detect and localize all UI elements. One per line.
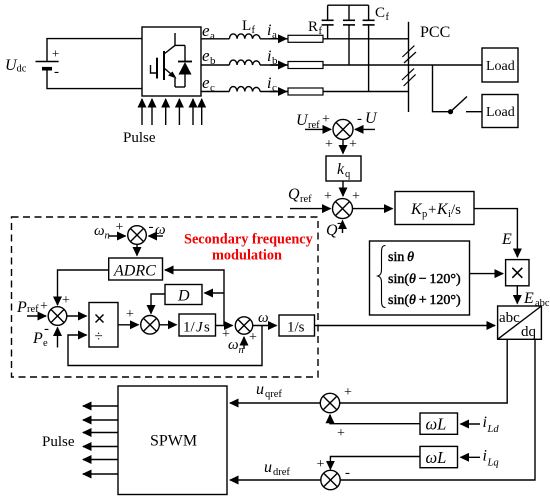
wire: ADRC output to P junction	[58, 270, 109, 305]
svg-text:+: +	[352, 189, 360, 204]
label Q minus	[326, 215, 342, 239]
multiplier block X	[506, 260, 529, 286]
omega-L block 2	[420, 446, 458, 467]
svg-text:b: b	[210, 55, 216, 67]
svg-text:c: c	[272, 82, 277, 94]
svg-text:ω: ω	[94, 223, 105, 239]
svg-text:f: f	[252, 25, 256, 36]
current arrow ia	[270, 38, 287, 40]
label Udc	[5, 57, 27, 75]
omega-L block 1	[420, 413, 458, 434]
resistor Rf phase c	[288, 88, 323, 95]
label ib	[267, 48, 278, 67]
label uqref	[256, 381, 282, 400]
svg-text:PCC: PCC	[420, 24, 450, 41]
svg-text:P: P	[32, 330, 43, 347]
svg-text:Ld: Ld	[487, 424, 500, 435]
wire: battery to inverter top rail	[47, 39, 142, 62]
wire: omega-L 2 to udref sum	[330, 457, 420, 469]
svg-text:ref: ref	[300, 194, 312, 205]
svg-text:k: k	[337, 161, 345, 178]
svg-text:R: R	[308, 19, 318, 35]
svg-text:u: u	[256, 381, 264, 398]
label ec	[202, 73, 215, 94]
capacitor Cf2	[343, 5, 355, 65]
svg-text:+: +	[116, 220, 124, 235]
wire: omega feedback into divider	[68, 326, 262, 366]
label iLq	[483, 447, 499, 468]
summing junction uqref	[320, 393, 339, 412]
svg-text:e: e	[202, 46, 210, 65]
svg-text:Pulse: Pulse	[42, 434, 75, 450]
wire: dw tap to D input	[205, 292, 225, 294]
svg-text:ref: ref	[27, 304, 39, 315]
D block	[165, 285, 202, 305]
wire: D output to sum	[151, 294, 165, 311]
pulse output arrows	[83, 406, 118, 474]
svg-text:i: i	[483, 447, 487, 464]
wire: junction to ADRC	[136, 244, 138, 255]
svg-text:U: U	[365, 110, 378, 127]
svg-text:+: +	[322, 112, 330, 127]
battery Udc	[36, 62, 59, 69]
capacitor Cf1	[322, 5, 334, 39]
label ia	[267, 22, 277, 41]
inverter box	[142, 27, 201, 96]
svg-text:qref: qref	[265, 389, 282, 400]
wire: U junction to kq	[342, 139, 344, 153]
diode D1 (antiparallel)	[175, 45, 192, 87]
inductor Lf phase a	[229, 34, 260, 39]
wire: capacitor top rail	[328, 4, 369, 6]
wire: drop to switch	[433, 65, 451, 112]
label eb	[202, 46, 216, 67]
svg-text:P: P	[16, 299, 27, 316]
PI block Kp+Ki/s	[395, 192, 474, 225]
switch S1	[448, 109, 453, 114]
svg-text:sin(θ + 120°): sin(θ + 120°)	[388, 293, 461, 308]
svg-text:e: e	[43, 338, 48, 349]
wire: uqref sum to SPWM	[230, 402, 320, 404]
sin reference block	[370, 241, 470, 315]
svg-text:+: +	[52, 46, 59, 61]
pulse arrows into inverter	[142, 99, 202, 125]
svg-text:c: c	[210, 82, 215, 94]
svg-text:dref: dref	[273, 467, 290, 478]
svg-text:e: e	[202, 21, 210, 40]
svg-text:-: -	[149, 219, 154, 235]
svg-text:÷: ÷	[95, 329, 103, 345]
wire: Pref input	[27, 315, 46, 317]
svg-text:a: a	[272, 29, 277, 41]
Load box 1	[482, 48, 518, 82]
svg-text:D: D	[177, 288, 190, 305]
label wn	[94, 223, 110, 242]
svg-text:i: i	[483, 414, 487, 431]
svg-text:+: +	[337, 426, 345, 441]
label minus w	[149, 219, 166, 238]
wire: Q feedback input	[342, 221, 344, 233]
bus slash marks	[402, 46, 416, 86]
wire: Pe input	[57, 328, 59, 348]
svg-text:f: f	[386, 12, 390, 23]
Load box 2	[482, 95, 518, 128]
svg-text:-: -	[345, 465, 350, 481]
wire: abc/dq q-output down to udref sum	[340, 339, 535, 480]
svg-text:f: f	[319, 26, 323, 37]
svg-text:E: E	[501, 231, 512, 248]
svg-text:C: C	[375, 5, 385, 21]
svg-text:q: q	[345, 169, 351, 180]
svg-text:modulation: modulation	[212, 248, 282, 264]
wire: divider to D sum	[118, 324, 139, 326]
wire: omega-L 1 to uqref sum	[330, 415, 420, 424]
label minus U	[357, 110, 378, 127]
capacitor Cf3	[363, 5, 375, 91]
svg-text:ωL: ωL	[426, 415, 447, 434]
gain block kq	[326, 156, 361, 181]
wire: sin block to multiplier	[470, 273, 504, 275]
resistor Rf phase b	[288, 62, 323, 69]
wire: Q junction to PI block	[353, 208, 393, 210]
svg-text:p: p	[422, 209, 427, 220]
svg-text:+: +	[325, 137, 333, 152]
resistor Rf phase a	[288, 35, 323, 42]
summing junction U (Uref - U)	[333, 119, 353, 139]
svg-text:Load: Load	[486, 59, 515, 74]
svg-text:Secondary frequency: Secondary frequency	[184, 232, 314, 248]
svg-text:+: +	[40, 299, 48, 314]
integrator block 1/s	[279, 315, 315, 336]
svg-text:abc: abc	[499, 310, 520, 326]
svg-text:Pulse: Pulse	[123, 130, 156, 146]
svg-text:b: b	[272, 55, 278, 67]
ADRC block	[109, 258, 163, 280]
label wn (bottom)	[228, 337, 244, 356]
svg-text:a: a	[210, 30, 215, 42]
svg-text:n: n	[105, 231, 110, 242]
svg-text:ω: ω	[155, 222, 166, 238]
wire: abc/dq d-output down to uqref sum	[340, 339, 508, 403]
svg-text:+: +	[324, 189, 332, 204]
svg-text:e: e	[202, 73, 210, 92]
svg-text:dc: dc	[17, 64, 27, 75]
svg-text:-: -	[357, 111, 362, 127]
wire: udref sum to SPWM	[230, 479, 321, 481]
svg-text:+: +	[126, 307, 134, 322]
svg-text:L: L	[242, 18, 251, 34]
svg-text:i: i	[267, 22, 271, 39]
wire: bus to Load1	[409, 64, 483, 66]
svg-text:+: +	[344, 385, 352, 400]
wire: kq to Q junction	[342, 181, 344, 196]
svg-text:dq: dq	[521, 324, 537, 340]
svg-text:sin θ: sin θ	[388, 250, 414, 265]
svg-text:s: s	[204, 320, 210, 336]
PCC bus	[408, 22, 410, 112]
svg-text:E: E	[523, 290, 534, 307]
svg-text:+: +	[249, 330, 257, 345]
SPWM block	[118, 386, 227, 495]
IGBT Q1	[151, 33, 177, 87]
svg-text:+: +	[317, 457, 325, 472]
summing junction Q (Qref - Q)	[333, 199, 353, 219]
svg-text:-: -	[54, 64, 59, 80]
svg-text:i: i	[267, 75, 271, 92]
svg-text:ω: ω	[228, 337, 239, 353]
svg-text:ref: ref	[308, 120, 320, 131]
label Lf	[242, 18, 256, 36]
summing junction wn add	[235, 317, 252, 334]
svg-text:Lq: Lq	[487, 457, 499, 468]
label Cf	[375, 5, 390, 23]
svg-text:1/: 1/	[183, 320, 196, 336]
label ea	[202, 21, 215, 42]
wire: w input	[149, 235, 164, 237]
integrator block 1/Js	[179, 314, 216, 336]
svg-text:+: +	[428, 202, 436, 218]
dashed box: secondary frequency modulation	[12, 217, 319, 377]
wire phase b	[201, 64, 229, 66]
svg-text:u: u	[264, 459, 272, 476]
svg-text:+: +	[349, 137, 357, 152]
abc/dq transform block	[498, 306, 542, 339]
divider block (x over /)	[89, 303, 118, 348]
wire: w out to 1/s	[253, 325, 277, 327]
wire phase c	[201, 91, 229, 93]
inductor Lf phase c	[229, 87, 260, 92]
label Secondary frequency modulation (red)	[184, 232, 314, 264]
svg-text:ωL: ωL	[426, 448, 447, 467]
wire phase a	[201, 38, 229, 40]
label Uref	[296, 112, 320, 131]
label Pe minus	[32, 321, 49, 349]
svg-text:+: +	[62, 293, 70, 308]
wire: wn input	[109, 235, 126, 237]
svg-text:Load: Load	[486, 105, 515, 120]
svg-text:n: n	[239, 345, 244, 356]
wire: P junction to divider	[67, 315, 87, 317]
svg-text:/s: /s	[451, 202, 461, 218]
wire: U input	[355, 128, 375, 130]
wire: wn input (bottom)	[243, 337, 245, 349]
inductor Lf phase b	[229, 60, 260, 65]
label Eabc	[523, 290, 550, 309]
svg-text:ADRC: ADRC	[113, 263, 156, 280]
label ic	[267, 75, 277, 94]
wire: multiplier to abc/dq	[516, 286, 518, 304]
summing junction udref	[321, 470, 340, 489]
label Qref	[288, 186, 312, 205]
wire: sum to 1/Js	[159, 324, 176, 326]
wire: dw tap to ADRC input	[165, 270, 224, 326]
svg-text:Q: Q	[288, 186, 300, 203]
svg-text:ω: ω	[258, 310, 269, 326]
wire: PI to multiplier	[474, 209, 517, 256]
summing junction wn - w (top of dashed box)	[128, 226, 147, 245]
wire: iLq into omega-L 2	[461, 456, 481, 458]
svg-text:SPWM: SPWM	[150, 433, 197, 450]
label iLd	[483, 414, 500, 435]
svg-text:1/s: 1/s	[287, 320, 305, 336]
current arrow ib	[270, 64, 287, 66]
svg-text:sin(θ − 120°): sin(θ − 120°)	[388, 272, 461, 287]
wire: Uref input	[305, 128, 331, 130]
label Pref plus	[16, 299, 48, 316]
label plus plus above Q junction	[324, 189, 360, 204]
label plus plus below U junction	[325, 137, 357, 152]
wire: 1/s to abc/dq	[315, 325, 496, 327]
wire: 1/Js to wn sum	[216, 325, 233, 327]
svg-text:-: -	[337, 215, 342, 231]
label udref	[264, 459, 290, 478]
svg-text:-: -	[44, 321, 49, 337]
wire: Qref input	[290, 208, 331, 210]
summing junction (D loop)	[141, 316, 160, 335]
wire: iLd into omega-L 1	[461, 423, 481, 425]
svg-text:i: i	[267, 48, 271, 65]
summing junction P (Pref - Pe)	[48, 307, 67, 326]
current arrow ic	[270, 91, 287, 93]
label Rf	[308, 19, 323, 37]
wire: battery to inverter bottom rail	[47, 69, 142, 89]
